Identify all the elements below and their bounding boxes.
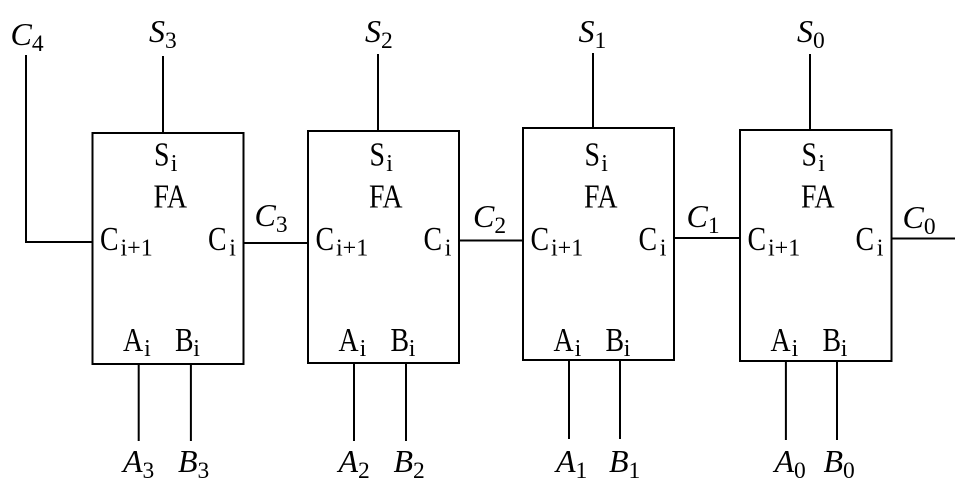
U2 name FA — [369, 177, 403, 215]
wire input A0 — [785, 361, 787, 440]
wire input B0 — [836, 361, 838, 440]
U2 pin label Ai — [339, 320, 360, 358]
wire input B2 — [405, 363, 407, 441]
svg-text:B: B — [606, 320, 625, 358]
svg-text:i: i — [229, 235, 236, 261]
wire carry C2 — [459, 240, 523, 242]
wire S2 output — [377, 54, 379, 131]
svg-text:C: C — [856, 219, 875, 257]
svg-text:i: i — [660, 235, 667, 261]
svg-text:i: i — [386, 151, 393, 177]
wire carry C1 — [674, 237, 740, 239]
wire C4 vertical — [25, 55, 27, 243]
svg-text:FA: FA — [369, 177, 403, 215]
U3 pin label Ai — [123, 320, 144, 358]
U0 pin label Ci+1 — [748, 219, 767, 257]
wire S3 output — [162, 56, 164, 133]
U3 pin label Si — [154, 135, 170, 173]
svg-text:i: i — [792, 336, 799, 362]
U3 name FA — [154, 177, 188, 215]
svg-text:i+1: i+1 — [551, 235, 583, 261]
U1 name FA — [584, 177, 618, 215]
svg-text:i: i — [624, 336, 631, 362]
svg-text:i: i — [409, 336, 416, 362]
svg-text:i: i — [877, 235, 884, 261]
svg-text:i: i — [144, 336, 151, 362]
svg-text:i: i — [575, 336, 582, 362]
U0 pin label Bi — [823, 320, 842, 358]
svg-text:i+1: i+1 — [768, 235, 800, 261]
svg-text:C: C — [748, 219, 767, 257]
U3 pin label Ci+1 — [100, 219, 119, 257]
U2 pin label Ci+1 — [316, 219, 335, 257]
wire carry-in C0 — [892, 238, 956, 240]
wire S1 output — [592, 53, 594, 128]
U0 name FA — [801, 177, 835, 215]
U1 pin label Bi — [606, 320, 625, 358]
wire input A1 — [568, 360, 570, 439]
svg-text:B: B — [391, 320, 410, 358]
wire input B3 — [190, 364, 192, 441]
U2 pin label Si — [370, 135, 386, 173]
svg-text:C: C — [639, 219, 658, 257]
svg-text:S: S — [585, 135, 601, 173]
svg-text:A: A — [554, 320, 575, 358]
U3 pin label Ci — [208, 219, 227, 257]
svg-text:FA: FA — [154, 177, 188, 215]
full-adder U3 box — [93, 133, 244, 364]
svg-text:i: i — [818, 151, 825, 177]
svg-text:i: i — [841, 336, 848, 362]
svg-text:FA: FA — [801, 177, 835, 215]
svg-text:S: S — [802, 135, 818, 173]
wire C4 horizontal into U3 carry-out — [25, 241, 93, 243]
svg-text:FA: FA — [584, 177, 618, 215]
svg-text:C: C — [424, 219, 443, 257]
svg-text:i+1: i+1 — [121, 235, 153, 261]
svg-text:C: C — [316, 219, 335, 257]
svg-text:S: S — [154, 135, 170, 173]
svg-text:i: i — [193, 336, 200, 362]
svg-text:S: S — [370, 135, 386, 173]
U1 pin label Ai — [554, 320, 575, 358]
svg-text:A: A — [339, 320, 360, 358]
svg-text:A: A — [123, 320, 144, 358]
U0 pin label Si — [802, 135, 818, 173]
svg-text:A: A — [771, 320, 792, 358]
svg-text:i+1: i+1 — [336, 235, 368, 261]
U1 pin label Si — [585, 135, 601, 173]
full-adder U1 box — [523, 128, 674, 360]
svg-text:i: i — [445, 235, 452, 261]
wire input B1 — [619, 360, 621, 439]
wire input A2 — [353, 363, 355, 441]
svg-text:i: i — [601, 151, 608, 177]
wire carry C3 — [244, 242, 309, 244]
svg-text:B: B — [175, 320, 194, 358]
U0 pin label Ci — [856, 219, 875, 257]
svg-text:C: C — [531, 219, 550, 257]
wire S0 output — [809, 54, 811, 130]
U2 pin label Bi — [391, 320, 410, 358]
svg-text:C: C — [208, 219, 227, 257]
full-adder U2 box — [308, 131, 459, 363]
svg-text:i: i — [360, 336, 367, 362]
U1 pin label Ci+1 — [531, 219, 550, 257]
U1 pin label Ci — [639, 219, 658, 257]
U3 pin label Bi — [175, 320, 194, 358]
U2 pin label Ci — [424, 219, 443, 257]
svg-text:i: i — [171, 151, 178, 177]
svg-text:B: B — [823, 320, 842, 358]
full-adder U0 box — [740, 130, 892, 361]
svg-text:C: C — [100, 219, 119, 257]
wire input A3 — [138, 364, 140, 441]
U0 pin label Ai — [771, 320, 792, 358]
